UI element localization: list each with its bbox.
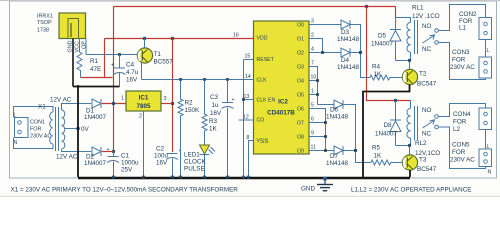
capacitor C4 4.7u 16V bbox=[111, 55, 139, 87]
pin 6 (O7) stub bbox=[309, 117, 326, 123]
svg-text:2: 2 bbox=[311, 33, 314, 39]
svg-text:R4: R4 bbox=[372, 64, 381, 71]
svg-text:L: L bbox=[487, 48, 490, 54]
svg-text:1N4007: 1N4007 bbox=[375, 131, 398, 138]
svg-text:O8: O8 bbox=[297, 135, 304, 141]
svg-text:CON2: CON2 bbox=[459, 11, 477, 18]
IC2 output labels O0-O9 bbox=[297, 23, 304, 155]
svg-text:2: 2 bbox=[139, 114, 142, 120]
pin GND of IRRX1 bbox=[68, 39, 74, 87]
svg-text:+: + bbox=[232, 97, 235, 103]
RL1 contact NC bbox=[422, 46, 432, 53]
svg-text:14: 14 bbox=[245, 74, 251, 80]
node: O1 joins O2 bbox=[321, 51, 324, 54]
wire: +12V top rail bbox=[114, 6, 396, 8]
svg-text:O9: O9 bbox=[297, 149, 304, 155]
svg-text:FOR: FOR bbox=[452, 149, 466, 156]
wire: bus to D6 anode bbox=[318, 104, 335, 106]
resistor R5 1K bbox=[371, 145, 402, 166]
node: T1 emitter on +5V rail bbox=[143, 37, 146, 40]
pin 11 (O9) stub to D7 bbox=[309, 145, 334, 151]
svg-text:OP: OP bbox=[82, 41, 88, 49]
resistor R1 47E bbox=[77, 50, 101, 78]
svg-text:RESET: RESET bbox=[257, 57, 275, 63]
svg-text:RL1: RL1 bbox=[412, 5, 424, 12]
node: O5 joins bus bbox=[316, 93, 319, 96]
wire: R5 to T3 base bbox=[401, 162, 403, 164]
svg-text:O5: O5 bbox=[297, 93, 304, 99]
svg-text:7: 7 bbox=[311, 61, 314, 67]
svg-text:BC557: BC557 bbox=[154, 59, 174, 66]
wire: RL1 coil bottom / D5 anode to T2 collector bbox=[396, 60, 410, 62]
svg-text:PULSE: PULSE bbox=[184, 166, 205, 173]
wire: IC1 pin 2 to ground rail bbox=[143, 111, 145, 177]
wire: RL2 coil bottom / D8 anode to T3 collector bbox=[396, 145, 410, 147]
pin 2 (O1) stub bbox=[309, 33, 323, 53]
capacitor C3 1u 16V bbox=[210, 80, 235, 178]
svg-text:9: 9 bbox=[311, 131, 314, 137]
wire: D3/D4 cathodes to R4 bbox=[350, 25, 370, 78]
wire: +12V drop to RL2 feed bbox=[367, 7, 411, 101]
wire: RL1 common to CON3 bbox=[438, 43, 485, 80]
svg-text:BC547: BC547 bbox=[417, 81, 437, 88]
svg-text:CON5: CON5 bbox=[452, 142, 470, 149]
node: ground rail junctions bbox=[112, 175, 250, 178]
wire: T1 collector to CLK line bbox=[141, 63, 143, 80]
svg-text:100u: 100u bbox=[154, 153, 169, 160]
svg-text:FOR: FOR bbox=[452, 57, 466, 64]
pin 3 (O0) stub to D3 bbox=[309, 19, 341, 25]
svg-text:NO: NO bbox=[422, 23, 432, 30]
pin 9 (O8) stub bbox=[309, 131, 326, 137]
svg-text:O4: O4 bbox=[297, 79, 304, 85]
svg-text:230V AC: 230V AC bbox=[30, 134, 51, 140]
transformer X1 bbox=[38, 97, 78, 161]
svg-text:12V AC: 12V AC bbox=[50, 97, 72, 104]
svg-text:T1: T1 bbox=[154, 51, 162, 58]
IR receiver module IRRX1 TSOP1738 bbox=[37, 13, 86, 39]
svg-text:R2: R2 bbox=[185, 100, 194, 107]
svg-text:D3: D3 bbox=[341, 29, 350, 36]
svg-text:CO: CO bbox=[257, 118, 265, 124]
relay RL2 12V,1CO coil bbox=[407, 101, 441, 158]
diode D8 1N4007 (RL2 flyback) bbox=[375, 101, 401, 146]
svg-text:BC547: BC547 bbox=[417, 166, 437, 173]
svg-text:R5: R5 bbox=[372, 145, 381, 152]
svg-text:4.7u: 4.7u bbox=[126, 69, 139, 76]
caption: X1 transformer note bbox=[11, 187, 239, 194]
svg-text:0V: 0V bbox=[81, 126, 90, 133]
svg-text:25V: 25V bbox=[121, 167, 133, 174]
svg-text:1N4007: 1N4007 bbox=[371, 41, 394, 48]
node: 7805 output vertical on +5V rail bbox=[171, 37, 174, 40]
ground: main vertical to bottom rail bbox=[77, 87, 79, 178]
caption: L1,L2 note bbox=[351, 187, 471, 194]
svg-text:47E: 47E bbox=[90, 66, 101, 73]
connector CON2 bbox=[459, 11, 492, 40]
svg-text:T2: T2 bbox=[419, 71, 427, 78]
svg-text:1K: 1K bbox=[374, 71, 383, 78]
wire: CON1 N to X1 primary bottom bbox=[14, 138, 54, 149]
node: RESET joins CLK EN bbox=[242, 98, 245, 101]
svg-text:O0: O0 bbox=[297, 23, 304, 29]
svg-text:D8: D8 bbox=[384, 122, 393, 129]
svg-text:1N4148: 1N4148 bbox=[337, 36, 360, 43]
svg-text:1N4148: 1N4148 bbox=[326, 114, 349, 121]
wire: secondary top to D1 bbox=[62, 104, 92, 111]
svg-text:L1: L1 bbox=[459, 25, 467, 32]
svg-text:GND: GND bbox=[68, 40, 74, 52]
pin 1 (O5) stub bbox=[309, 89, 318, 95]
svg-text:D6: D6 bbox=[330, 107, 339, 114]
wire: T2 collector bbox=[409, 61, 411, 70]
svg-text:CD4017B: CD4017B bbox=[267, 110, 295, 117]
RL1 common pole and arm bbox=[423, 35, 439, 45]
wire: CON4 to CON5 link bbox=[486, 130, 490, 151]
svg-text:150K: 150K bbox=[185, 107, 201, 114]
diode D7 1N4148 bbox=[326, 146, 349, 167]
svg-text:1: 1 bbox=[311, 89, 314, 95]
wire: T3 collector bbox=[409, 146, 411, 155]
svg-text:R3: R3 bbox=[209, 118, 218, 125]
ground: bottom rail bbox=[78, 177, 410, 180]
connector CON5 bbox=[450, 142, 492, 176]
node: TSOP ground tee bbox=[77, 85, 80, 88]
pin 8 VSS stub bbox=[247, 135, 254, 177]
svg-text:D4: D4 bbox=[341, 57, 350, 64]
node: 7805 pin3 junction bbox=[171, 102, 174, 105]
node: C3 tap on clock line bbox=[226, 78, 229, 81]
connector CON3 bbox=[450, 49, 492, 78]
svg-text:C4: C4 bbox=[126, 62, 135, 69]
wire: OP output to T1 base bbox=[86, 54, 138, 56]
wire: +12V vertical (D1/D2 junction to top rail) bbox=[113, 7, 115, 152]
svg-text:+: + bbox=[111, 63, 114, 69]
wire: D7 cathode joins bbox=[343, 150, 356, 152]
wire: D6/D7 cathodes to R5 bbox=[343, 105, 371, 163]
svg-text:CLOCK: CLOCK bbox=[184, 159, 206, 166]
wire: 7805 output vertical to C2 bbox=[172, 39, 174, 153]
ground: T2 emitter rail bbox=[363, 85, 410, 177]
node: C4 tap on OP line bbox=[118, 53, 121, 56]
pin OP of IRRX1 bbox=[82, 39, 88, 55]
svg-text:230V AC: 230V AC bbox=[450, 64, 475, 71]
wire: +5V rail to IC2 VDD pin 16 bbox=[105, 38, 254, 40]
svg-text:R1: R1 bbox=[90, 58, 99, 65]
ground: T3 emitter to rail bbox=[409, 170, 411, 177]
RL2 common pole and arm bbox=[423, 120, 439, 129]
svg-text:12V AC: 12V AC bbox=[56, 154, 78, 161]
svg-text:LED1: LED1 bbox=[184, 152, 200, 159]
wire: RESET/CLK EN to ground bbox=[243, 60, 245, 178]
svg-text:FOR: FOR bbox=[30, 127, 41, 133]
resistor R3 1K bbox=[202, 80, 218, 146]
svg-text:IRRX1: IRRX1 bbox=[37, 14, 53, 20]
svg-text:IC2: IC2 bbox=[278, 99, 288, 106]
svg-text:230V AC: 230V AC bbox=[450, 157, 475, 164]
svg-text:CLK: CLK bbox=[257, 78, 268, 84]
svg-text:16V: 16V bbox=[156, 160, 168, 167]
pin 15 RESET stub bbox=[244, 54, 254, 60]
svg-text:CON1: CON1 bbox=[30, 120, 45, 126]
svg-text:1N4148: 1N4148 bbox=[337, 64, 360, 71]
wire: secondary bottom to D2 bbox=[62, 149, 92, 151]
node: O9 bus junction bbox=[324, 149, 327, 152]
svg-text:1: 1 bbox=[121, 96, 124, 102]
node: O4 joins bus bbox=[316, 79, 319, 82]
pin 5 (O6) stub bbox=[309, 103, 326, 151]
svg-text:D5: D5 bbox=[378, 33, 387, 40]
wire: R1 bottom to +5V node bbox=[81, 77, 113, 79]
svg-text:+: + bbox=[107, 147, 110, 153]
wire: RL2 common to CON5 bbox=[438, 127, 485, 169]
svg-text:CON3: CON3 bbox=[452, 49, 470, 56]
transistor T2 BC547 bbox=[402, 69, 436, 87]
svg-text:6: 6 bbox=[311, 117, 314, 123]
ground symbol GND bbox=[301, 177, 333, 193]
svg-text:12V ,1CO: 12V ,1CO bbox=[412, 13, 440, 20]
svg-text:16: 16 bbox=[233, 33, 239, 39]
svg-text:5: 5 bbox=[311, 103, 314, 109]
RL2 contact NC bbox=[422, 131, 432, 138]
wire: RL2 NO to CON4 bbox=[438, 104, 485, 117]
svg-text:CON4: CON4 bbox=[453, 111, 471, 118]
svg-text:16V: 16V bbox=[126, 77, 138, 84]
node: R3/LED tap on clock line bbox=[203, 78, 206, 81]
ground: TSOP ground run to C4 bbox=[73, 86, 120, 88]
svg-text:L1,L2 = 230V AC OPERATED APPLI: L1,L2 = 230V AC OPERATED APPLIANCE bbox=[351, 187, 471, 194]
connector CON1 bbox=[14, 113, 52, 147]
wire: D4 cathode joins bbox=[350, 52, 361, 54]
svg-text:NC: NC bbox=[422, 131, 432, 138]
node: +12V junction at D1 bbox=[112, 102, 115, 105]
pin 13 CLK EN stub bbox=[244, 94, 254, 100]
node: 0V centre tap junction bbox=[76, 126, 89, 133]
svg-text:SS: SS bbox=[260, 138, 268, 145]
node: junction top rail / relay2 feed bbox=[365, 5, 368, 8]
diode D3 1N4148 bbox=[337, 20, 360, 43]
node: D7 cathode junction bbox=[354, 149, 357, 152]
relay RL1 12V,1CO coil bbox=[396, 5, 440, 61]
pin 14 label bbox=[245, 74, 251, 80]
diode D4 1N4148 bbox=[337, 48, 360, 71]
LED1 clock pulse indicator bbox=[184, 145, 215, 177]
capacitor C2 100u 16V bbox=[154, 146, 182, 178]
svg-text:O7: O7 bbox=[297, 121, 304, 127]
node: +12V junction at D2 / C1 bbox=[112, 150, 115, 153]
svg-text:8: 8 bbox=[247, 135, 250, 141]
node: O7 joins bus bbox=[324, 121, 327, 124]
svg-text:NO: NO bbox=[422, 107, 432, 114]
svg-text:1K: 1K bbox=[374, 153, 383, 160]
diode D1 1N4007 bbox=[84, 99, 107, 121]
wire: IC1 pin3 stub bbox=[161, 103, 173, 105]
svg-text:1N4007: 1N4007 bbox=[84, 160, 107, 167]
resistor R2 150K bbox=[178, 80, 200, 178]
node: T2 collector junction bbox=[408, 59, 411, 62]
node: T3 collector junction bbox=[408, 144, 411, 147]
svg-text:1N4007: 1N4007 bbox=[84, 114, 107, 121]
svg-text:C3: C3 bbox=[210, 94, 219, 101]
wire: CON1 L to X1 primary top bbox=[14, 107, 54, 118]
svg-text:T3: T3 bbox=[419, 157, 427, 164]
svg-text:RL2: RL2 bbox=[415, 140, 427, 147]
svg-text:1N4148: 1N4148 bbox=[326, 160, 349, 167]
wire: clock line to IC2 pin 14 bbox=[142, 79, 254, 81]
svg-text:NC: NC bbox=[422, 46, 432, 53]
pin VCC of IRRX1 bbox=[75, 39, 81, 53]
node: R2 tap on clock line bbox=[179, 78, 182, 81]
svg-text:10: 10 bbox=[311, 75, 317, 81]
svg-text:1u: 1u bbox=[212, 102, 220, 109]
RL2 contact NO bbox=[422, 107, 438, 118]
wire: D1 cathode to IC1 pin1 (+12V) bbox=[102, 103, 126, 105]
transistor T3 BC547 bbox=[402, 155, 436, 173]
diode D5 1N4007 (RL1 flyback) bbox=[371, 18, 401, 61]
svg-text:CLK EN: CLK EN bbox=[257, 98, 276, 104]
wire: CON2 to CON3 link bbox=[486, 40, 490, 58]
wire: +12V drop to RL1 bbox=[395, 7, 397, 18]
svg-text:D7: D7 bbox=[330, 153, 339, 160]
svg-text:FOR: FOR bbox=[453, 119, 467, 126]
pin 12 CO stub bbox=[239, 115, 254, 121]
transistor T1 BC557 bbox=[137, 48, 173, 66]
svg-text:O2: O2 bbox=[297, 51, 304, 57]
counter IC2 CD4017B bbox=[254, 21, 310, 154]
regulator IC1 7805 bbox=[121, 91, 167, 120]
svg-text:4: 4 bbox=[311, 47, 314, 53]
capacitor C1 1000u 25V bbox=[107, 147, 140, 177]
svg-text:N: N bbox=[488, 170, 492, 176]
pin 16 label bbox=[233, 33, 239, 39]
svg-text:O6: O6 bbox=[297, 107, 304, 113]
svg-text:3: 3 bbox=[164, 96, 167, 102]
svg-text:X1 = 230V AC PRIMARY TO 12V–0–: X1 = 230V AC PRIMARY TO 12V–0–12V,500mA … bbox=[11, 187, 239, 194]
svg-text:TSOP: TSOP bbox=[37, 20, 52, 26]
svg-text:11: 11 bbox=[311, 145, 316, 151]
svg-text:VDD: VDD bbox=[257, 36, 268, 42]
svg-text:1000u: 1000u bbox=[121, 160, 139, 167]
svg-text:X1: X1 bbox=[38, 104, 46, 111]
wire: D2 cathode to +12V vertical bbox=[102, 151, 114, 153]
connector CON4 bbox=[453, 108, 492, 133]
wire: centre tap to ground vertical bbox=[65, 128, 78, 130]
resistor R4 1K bbox=[370, 64, 402, 81]
svg-text:L2: L2 bbox=[453, 126, 461, 133]
svg-text:16V: 16V bbox=[210, 110, 222, 117]
svg-text:1K: 1K bbox=[209, 126, 218, 133]
pin 7 (O3) stub bbox=[309, 61, 318, 105]
RL1 contact NO bbox=[422, 23, 438, 32]
diode D2 1N4007 bbox=[84, 147, 107, 167]
node: D8 tap on RL2 feed bbox=[394, 99, 397, 102]
wire: +5V drop to R1 node bbox=[104, 39, 106, 78]
svg-text:C1: C1 bbox=[121, 153, 130, 160]
svg-text:O1: O1 bbox=[297, 37, 304, 43]
node: O8 joins bus bbox=[324, 135, 327, 138]
svg-text:GND: GND bbox=[301, 186, 315, 193]
svg-text:7805: 7805 bbox=[136, 103, 151, 110]
pin 10 (O4) stub bbox=[309, 75, 318, 81]
svg-text:15: 15 bbox=[245, 54, 251, 60]
pin 4 (O2) stub to D4 bbox=[309, 47, 341, 53]
wire: T1 emitter to +5V rail bbox=[144, 39, 146, 49]
node: D4 cathode junction bbox=[359, 51, 362, 54]
svg-text:1738: 1738 bbox=[37, 28, 49, 34]
svg-text:C2: C2 bbox=[156, 146, 165, 153]
wire: RL1 NO to CON2 bbox=[438, 5, 485, 31]
svg-text:N: N bbox=[14, 140, 18, 146]
diode D6 1N4148 bbox=[326, 100, 349, 120]
svg-text:O3: O3 bbox=[297, 65, 304, 71]
wire: R4 to T2 base bbox=[401, 77, 403, 79]
svg-text:3: 3 bbox=[311, 19, 314, 25]
svg-text:IC1: IC1 bbox=[139, 95, 149, 102]
